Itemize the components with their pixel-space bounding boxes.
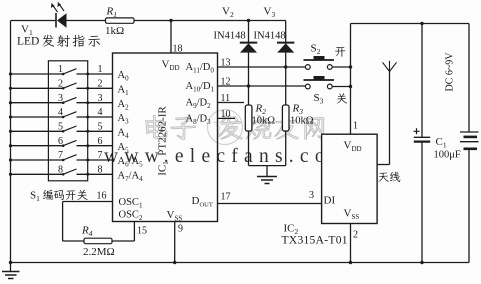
svg-text:10: 10 [221,109,231,120]
switch row 7 wire [11,159,64,161]
svg-text:IN4148: IN4148 [214,31,246,42]
svg-text:9: 9 [178,224,183,235]
pin 11 wire [218,102,245,104]
svg-text:A11/D0: A11/D0 [186,62,215,74]
svg-text:LED: LED [17,36,39,48]
switch row 6 wire [11,145,64,147]
switch 6 blade [63,140,77,145]
resistor R2 [245,105,252,131]
svg-text:3: 3 [98,93,103,104]
switch 2 blade [63,83,77,88]
coding switch box S1 [48,61,87,181]
label 天线 [378,172,400,182]
LED V1 [55,13,57,28]
svg-text:10kΩ: 10kΩ [290,116,314,127]
watermark text row1 [146,115,167,138]
switch row 3 wire [11,102,64,104]
svg-text:TX315A-T01: TX315A-T01 [282,235,348,247]
switch 7 blade [63,155,77,160]
svg-text:11: 11 [221,93,231,104]
svg-text:2: 2 [353,230,358,241]
ground under R2 R3 [249,165,286,167]
switch row 5 wire [11,130,64,132]
push button S2 [305,65,310,70]
push button S3 [305,84,310,89]
ground symbol bottom-left [9,261,12,264]
svg-text:8: 8 [98,165,103,176]
svg-text:2.2MΩ: 2.2MΩ [83,246,115,258]
svg-text:6: 6 [58,136,63,147]
pin 10 wire [218,117,236,119]
diode IN4148 V2 [248,21,250,44]
switch 3 blade [63,97,77,102]
pin 18 VDD wire [170,21,172,54]
resistor R3 [282,105,289,131]
switch 4 blade [63,112,77,117]
svg-text:2: 2 [58,79,63,90]
switch 5 blade [63,126,77,131]
pin16 wire to R4 [63,201,113,203]
svg-text:DC 6~9V: DC 6~9V [445,52,456,92]
switch row 8 wire [11,173,64,175]
antenna [389,72,391,165]
svg-text:1kΩ: 1kΩ [105,25,124,37]
svg-text:IC1 PT2262-IR: IC1 PT2262-IR [157,106,170,176]
IC2 pin2 wire [350,224,352,263]
svg-text:4: 4 [98,107,103,118]
svg-text:15: 15 [137,226,147,237]
svg-text:IN4148: IN4148 [254,31,286,42]
capacitor C1 [421,24,423,138]
svg-text:100μF: 100μF [434,150,461,161]
wire left bus [10,21,12,263]
svg-text:7: 7 [58,150,63,161]
wire top rail right segment [351,23,470,25]
svg-text:3: 3 [309,190,314,201]
IC U1 PT2262-IR box [113,53,218,222]
svg-text:18: 18 [173,44,183,55]
svg-text:5: 5 [98,122,103,133]
IC U2 TX315A-T01 box [322,134,378,223]
svg-text:8: 8 [58,165,63,176]
switch 1 blade [63,69,77,74]
svg-text:1: 1 [98,64,103,75]
svg-text:7: 7 [98,150,103,161]
switch 8 blade [63,169,77,174]
wire bottom ground rail [11,262,470,264]
svg-text:6: 6 [98,136,103,147]
svg-text:1: 1 [353,121,358,132]
pin15 wire [112,240,134,242]
svg-text:16: 16 [97,191,107,202]
pin 12 wire [218,85,307,87]
pin 13 wire [218,66,307,68]
svg-text:13: 13 [221,58,231,69]
label 关 [337,93,348,103]
switch row 4 wire [11,116,64,118]
resistor R4 [84,238,112,244]
watermark seal circle [208,110,243,145]
switch row 1 wire [11,73,64,75]
battery DC 6-9V [468,24,470,133]
switch row 2 wire [11,87,64,89]
resistor R1 [106,18,135,23]
diode IN4148 V3 [285,21,287,44]
svg-text:12: 12 [221,77,231,88]
svg-text:5: 5 [58,122,63,133]
svg-text:DI: DI [324,195,336,207]
svg-text:10kΩ: 10kΩ [252,116,276,127]
svg-text:2: 2 [98,79,103,90]
label 开 [335,47,345,57]
wire VDD drop to IC2 pin1 [350,24,352,135]
wire top rail left segment [11,20,57,22]
svg-text:1: 1 [58,64,63,75]
svg-text:A10/D1: A10/D1 [186,81,215,93]
svg-text:17: 17 [221,192,231,203]
svg-text:3: 3 [58,93,63,104]
svg-text:4: 4 [58,107,63,118]
